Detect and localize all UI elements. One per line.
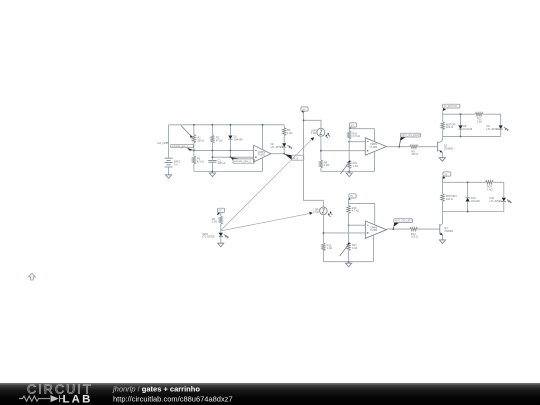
wire CMP3 V+ rail — [349, 198, 375, 224]
resistor R14 — [485, 181, 493, 192]
wire divider node to CMP2 plus — [321, 150, 365, 152]
resistor R6 column — [283, 125, 285, 144]
resistor R1 — [192, 135, 204, 143]
svg-text:LTL-307EE: LTL-307EE — [487, 127, 500, 131]
svg-text:5V: 5V — [350, 195, 353, 198]
resistor R15 — [322, 233, 332, 262]
transistor Q2 — [437, 136, 453, 156]
svg-text:LTL-307EE: LTL-307EE — [202, 235, 215, 239]
svg-text:1 kΩ: 1 kΩ — [327, 246, 332, 250]
light arrow into R1 sensor — [181, 126, 193, 138]
ground IR emitter — [218, 242, 224, 247]
resistor R13 — [410, 227, 418, 238]
svg-text:entrada_gate_y: entrada_gate_y — [234, 160, 251, 163]
LED D12 indicator — [490, 196, 512, 211]
wire rail2 left block middle — [194, 149, 254, 151]
resistor R2 — [211, 135, 223, 143]
resistor R2 column — [211, 125, 213, 160]
svg-text:LAB: LAB — [63, 393, 93, 405]
wire CMP3 V- to ground rail — [373, 235, 375, 262]
svg-text:2N3904: 2N3904 — [444, 229, 454, 233]
svg-text:MOT_ON_LEFT: MOT_ON_LEFT — [395, 220, 413, 223]
ground CMP2 block — [346, 172, 352, 177]
svg-text:TL082: TL082 — [258, 153, 266, 157]
svg-text:1 kΩ: 1 kΩ — [487, 188, 492, 192]
svg-text:4.7 kΩ: 4.7 kΩ — [352, 134, 360, 138]
svg-text:560 Ω: 560 Ω — [197, 138, 204, 142]
callout box at R1 node — [171, 144, 194, 150]
wire motor1 top rail — [443, 111, 501, 125]
LED D2 — [271, 142, 292, 154]
logo diode — [51, 395, 59, 402]
diode D1 column — [229, 125, 231, 157]
op-amp CMP2 — [365, 138, 386, 155]
svg-text:47 kΩ: 47 kΩ — [216, 138, 223, 142]
resistor R3 column — [193, 150, 195, 171]
svg-text:100 Ω: 100 Ω — [411, 235, 418, 239]
wire motor2 top rail — [443, 176, 504, 197]
svg-text:5V: 5V — [219, 210, 222, 213]
svg-text:100 Ω: 100 Ω — [411, 152, 418, 156]
wire CMP1 V- to rail3 — [262, 158, 264, 171]
photoresistor LDR1 — [311, 128, 330, 138]
resistor R9 — [410, 145, 418, 156]
svg-text:TL082: TL082 — [370, 145, 378, 149]
ground for battery — [166, 173, 172, 178]
svg-text:4 V: 4 V — [174, 163, 178, 167]
svg-text:LTL-307EE: LTL-307EE — [271, 145, 284, 149]
svg-text:1N4148: 1N4148 — [471, 199, 481, 203]
wire CMP3 output to Q4 base — [387, 228, 440, 230]
wire CMP3 ground rail — [323, 261, 373, 263]
potentiometer R11 — [340, 161, 358, 175]
wire w3 to CMP1 plus input — [212, 156, 253, 158]
svg-text:entrada_gate_x: entrada_gate_x — [172, 145, 189, 148]
op-amp CMP3 — [365, 221, 386, 238]
wire CMP2 ground rail — [321, 171, 375, 173]
node 5V label box for CMP3 divider — [348, 194, 356, 200]
svg-text:100 µF: 100 µF — [218, 161, 226, 165]
resistor R3 — [192, 156, 204, 164]
svg-text:TL082: TL082 — [370, 228, 378, 232]
wire rail1 top 5V rail of left block — [169, 124, 285, 126]
callout box MOT_ON_LEFT — [392, 219, 413, 230]
svg-text:1 kΩ: 1 kΩ — [477, 119, 482, 123]
wire CMP2 V+ rail — [349, 127, 374, 141]
wire CMP2 V- to ground rail — [374, 151, 376, 172]
svg-text:5V: 5V — [351, 124, 354, 127]
wire CMP1 output — [271, 153, 284, 155]
svg-text:1 kΩ: 1 kΩ — [352, 246, 357, 250]
logo resistor-diode squiggle — [19, 395, 63, 402]
mouse cursor marker — [29, 273, 36, 280]
svg-text:1 kΩ: 1 kΩ — [353, 164, 358, 168]
LED D9 indicator — [487, 124, 509, 136]
ground Q4 emitter — [439, 238, 445, 243]
node DA_OFF label — [158, 141, 169, 145]
ground left block — [209, 172, 215, 177]
wire IR emitter column — [220, 213, 222, 233]
junction dots left block — [193, 124, 195, 126]
resistor MOTOR — [441, 122, 456, 137]
footer bar — [0, 383, 540, 405]
resistor R12 — [475, 112, 483, 123]
wire CMP1 V+ to rail1 — [262, 125, 264, 149]
resistor R16 — [347, 206, 360, 226]
node 5V supply label box — [301, 107, 308, 114]
wire battery column — [168, 125, 170, 174]
ground Q2 emitter — [439, 156, 445, 161]
wire CMP3 minus input — [349, 224, 366, 226]
svg-text:1N4148: 1N4148 — [234, 137, 244, 141]
svg-text:MOT_ON_RIGHT: MOT_ON_RIGHT — [402, 134, 422, 137]
svg-text:5V: 5V — [302, 108, 305, 111]
light ray arrow to LDR2 — [221, 212, 313, 231]
wire 5V distribution column — [304, 111, 324, 207]
svg-text:5V: 5V — [444, 173, 447, 176]
wire CMP2 minus input — [349, 141, 365, 143]
resistor R4 — [212, 216, 223, 224]
svg-text:2N3904: 2N3904 — [444, 146, 454, 150]
wire R10 to pot R11 — [348, 142, 350, 161]
svg-text:47 kΩ: 47 kΩ — [197, 159, 204, 163]
wire motor2 bottom rail — [443, 211, 504, 213]
svg-text:1 kΩ: 1 kΩ — [287, 131, 292, 135]
capacitor C1 — [208, 158, 226, 171]
node 5V label box for CMP2 divider — [349, 123, 357, 129]
svg-text:100 Ω: 100 Ω — [446, 125, 453, 129]
wire LDR1 to divider node — [320, 136, 322, 151]
wire motor1 bottom rail — [442, 135, 500, 137]
svg-text:100 Ω: 100 Ω — [446, 197, 453, 201]
light ray arrow to LDR1 — [221, 137, 314, 230]
diode D8 — [458, 114, 472, 136]
wire divider node to CMP3 plus — [323, 232, 365, 234]
wire rail3 left block ground rail — [194, 171, 263, 173]
node 5V_MOTOR label box — [443, 104, 460, 111]
resistor R1 column — [193, 125, 195, 151]
potentiometer R17 — [340, 243, 358, 262]
resistor MOTOR2 — [441, 194, 458, 212]
wire LDR2 to divider node — [322, 215, 324, 233]
LED LED1 infrared emitter — [202, 232, 229, 242]
node 5V label box for motor2 — [442, 172, 451, 179]
photoresistor LDR2 — [313, 207, 332, 217]
resistor R10 — [347, 131, 360, 142]
resistor R8 — [319, 151, 329, 172]
callout box at CMP1 output — [284, 154, 303, 160]
diode D10 flyback — [466, 182, 481, 211]
wire CMP2 output to Q2 base — [386, 146, 437, 148]
svg-text:1 kΩ: 1 kΩ — [311, 131, 316, 135]
svg-text:4.7 kΩ: 4.7 kΩ — [352, 209, 360, 213]
callout box MOT_ON_RIGHT — [398, 133, 421, 147]
svg-text:1N4148: 1N4148 — [463, 127, 473, 131]
node 5V label box for IR emitter — [217, 208, 225, 215]
svg-text:DA_OFF: DA_OFF — [158, 141, 168, 145]
callout box at CMP1 plus node — [231, 157, 255, 163]
transistor Q4 — [440, 212, 454, 239]
svg-text:LTL-307EE: LTL-307EE — [490, 199, 503, 203]
svg-text:1 kΩ: 1 kΩ — [324, 163, 329, 167]
diode D1 — [228, 135, 243, 142]
op-amp CMP1 — [254, 145, 271, 162]
resistor R6 — [282, 128, 292, 136]
battery V1 — [165, 156, 181, 169]
svg-text:jhonrlp / gates + carrinho: jhonrlp / gates + carrinho — [112, 384, 200, 393]
svg-text:http://circuitlab.com/c88u674a: http://circuitlab.com/c88u674a8dxz7 — [113, 395, 233, 404]
svg-text:5V_MOTOR: 5V_MOTOR — [444, 105, 457, 108]
wire R16 to pot R17 — [348, 225, 350, 243]
svg-text:1 kΩ: 1 kΩ — [212, 220, 217, 224]
svg-text:1 kΩ: 1 kΩ — [313, 210, 318, 214]
ground CMP3 block — [346, 262, 352, 267]
